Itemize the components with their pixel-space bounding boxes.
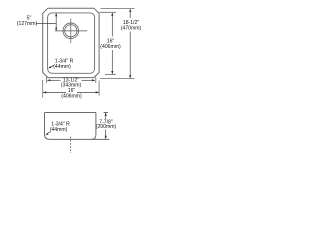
svg-text:(406mm): (406mm) [61, 93, 82, 99]
svg-text:(44mm): (44mm) [50, 127, 68, 133]
svg-text:(406mm): (406mm) [100, 44, 121, 50]
svg-text:(470mm): (470mm) [121, 25, 142, 31]
svg-text:(44mm): (44mm) [53, 64, 71, 70]
svg-text:(200mm): (200mm) [96, 124, 117, 130]
svg-text:(127mm): (127mm) [17, 21, 38, 27]
